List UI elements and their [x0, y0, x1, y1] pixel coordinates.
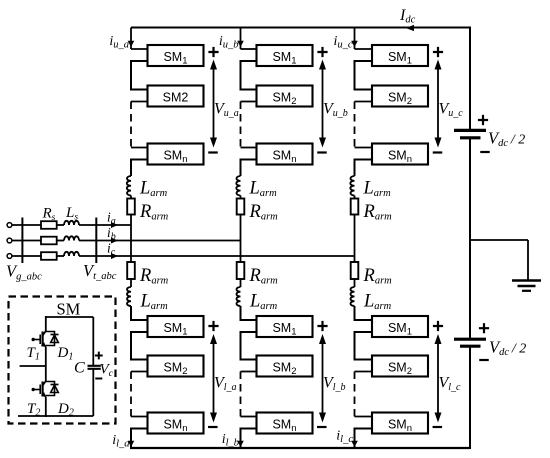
- submodule SM2 lower c: [372, 356, 428, 377]
- wire phase c line to leg: [79, 255, 355, 257]
- plus sign V_l_a: [208, 321, 218, 331]
- voltage arrow V_l_c: [437, 338, 439, 418]
- wire Rs to Ls phase c: [57, 255, 64, 257]
- node grid terminal phase c: [7, 254, 12, 259]
- wire SM2 exit lower c: [355, 371, 373, 373]
- current arrow i_l_b: [237, 441, 244, 447]
- inductor L_arm lower b: [236, 287, 240, 306]
- wire top bus drop phase b: [240, 28, 242, 50]
- wire grid line phase a: [12, 224, 41, 226]
- plus sign V_u_c: [433, 47, 443, 57]
- current arrow I_dc (pointing left): [406, 25, 415, 31]
- wire dashed omitted modules lower a: [130, 372, 132, 417]
- submodule SMn upper b: [257, 144, 313, 165]
- wire ground tap vertical: [527, 240, 529, 280]
- wire Rarm-Larm lower b: [240, 279, 242, 287]
- wire SM right upper: [92, 317, 94, 365]
- submodule SM2 lower a: [148, 356, 204, 377]
- submodule SM1 lower b: [257, 316, 313, 337]
- resistor R_arm upper b: [237, 199, 245, 215]
- wire Larm-Rarm upper b: [240, 196, 242, 199]
- wire SMn to Larm upper c: [355, 160, 373, 177]
- inductor L_arm upper c: [350, 176, 354, 196]
- wire into SM1 upper c: [355, 48, 373, 50]
- wire Rs to Ls phase a: [57, 224, 64, 226]
- wire Larm to SM1 lower b: [241, 306, 257, 320]
- wire into SM1 upper a: [131, 48, 148, 50]
- wire SMn to bottom bus b: [241, 429, 257, 449]
- wire into SMn upper b: [241, 147, 257, 149]
- voltage arrow V_l_b: [322, 338, 324, 418]
- node bus V_g vertical bar: [21, 218, 23, 264]
- wire SM left upper: [45, 316, 47, 331]
- plus sign V_l_c: [433, 321, 443, 331]
- inductor Ls phase a: [64, 221, 79, 225]
- minus sign V_l_b: [317, 426, 327, 428]
- wire SMn to bottom bus c: [355, 429, 373, 449]
- minus sign of lower Vdc/2: [479, 359, 489, 361]
- wire SM bottom: [18, 415, 93, 417]
- wire right DC bus upper segment: [469, 27, 471, 131]
- wire dashed omitted modules lower c: [354, 372, 356, 417]
- wire Rs to Ls phase b: [57, 240, 64, 242]
- submodule SM1 upper c: [372, 45, 428, 66]
- submodule SMn upper a: [148, 144, 204, 165]
- resistor Rs phase c: [41, 252, 57, 260]
- wire SM mid: [45, 347, 47, 381]
- submodule SM1 upper b: [257, 45, 313, 66]
- wire SM output stub: [20, 365, 46, 367]
- wire dashed omitted modules upper c: [354, 102, 356, 148]
- voltage arrow V_l_a: [213, 338, 215, 418]
- wire Larm-Rarm upper c: [354, 196, 356, 199]
- wire into SMn lower a: [131, 416, 148, 418]
- wire into SMn lower c: [355, 416, 373, 418]
- node grid terminal phase a: [7, 223, 12, 228]
- current arrow i_u_a: [128, 41, 135, 47]
- current arrow i_u_b: [237, 41, 244, 47]
- minus sign V_u_a: [208, 151, 218, 153]
- submodule SM2 upper a: [148, 86, 204, 107]
- wire grid line phase b: [12, 240, 41, 242]
- wire leg middle phase b: [240, 215, 242, 263]
- inductor L_arm lower a: [127, 287, 131, 306]
- resistor Rs phase a: [41, 221, 57, 229]
- wire top DC bus: [131, 27, 470, 29]
- minus sign V_l_a: [208, 426, 218, 428]
- inductor Ls phase b: [64, 236, 79, 240]
- diode D1: [46, 332, 55, 346]
- wire phase a line to leg: [79, 224, 131, 226]
- capacitor C: [88, 365, 101, 367]
- inductor L_arm upper a: [127, 176, 131, 196]
- capacitor Vdc/2 lower: [454, 338, 486, 341]
- voltage arrow V_u_c: [437, 64, 439, 143]
- resistor R_arm lower c: [351, 262, 359, 279]
- submodule SM2 lower b: [257, 356, 313, 377]
- wire into SMn upper c: [355, 147, 373, 149]
- wire SMn to Larm upper b: [241, 160, 257, 177]
- plus sign of lower Vdc/2: [479, 323, 489, 333]
- ground symbol: [512, 279, 541, 282]
- wire bottom DC bus: [130, 447, 470, 449]
- node grid terminal phase b: [7, 238, 12, 243]
- plus sign V_u_b: [317, 47, 327, 57]
- plus sign of upper Vdc/2: [478, 115, 488, 125]
- resistor R_arm upper a: [127, 199, 135, 215]
- resistor R_arm upper c: [351, 199, 359, 215]
- minus sign of C: [95, 378, 102, 380]
- current arrow i_a: [111, 222, 118, 228]
- inductor L_arm lower c: [350, 287, 354, 306]
- current arrow i_u_c: [351, 41, 358, 47]
- wire right DC bus middle segment: [469, 138, 471, 339]
- submodule SM1 upper a: [148, 45, 204, 66]
- submodule SM1 lower c: [372, 316, 428, 337]
- plus sign of C: [95, 352, 103, 360]
- transistor T1: [43, 331, 46, 336]
- wire SMn to bottom bus a: [131, 429, 148, 449]
- svg-text:SM: SM: [57, 300, 81, 319]
- wire SM1-SM2 upper b: [241, 61, 257, 90]
- wire SM1-SM2 lower a: [131, 332, 148, 360]
- wire SMn to Larm upper a: [131, 160, 148, 177]
- capacitor Vdc/2 upper: [454, 129, 486, 132]
- voltage arrow V_u_a: [213, 64, 215, 143]
- wire SM1-SM2 upper a: [131, 61, 148, 90]
- current arrow i_l_c: [351, 441, 358, 447]
- wire leg middle phase c: [354, 215, 356, 263]
- minus sign V_u_b: [317, 151, 327, 153]
- minus sign V_l_c: [433, 426, 443, 428]
- wire top bus drop phase c: [354, 28, 356, 50]
- resistor R_arm lower b: [237, 262, 245, 279]
- submodule SMn lower a: [148, 413, 204, 434]
- SM detail dashed box: [9, 297, 116, 424]
- wire dashed omitted modules upper a: [130, 102, 132, 148]
- wire SM1-SM2 upper c: [355, 61, 373, 90]
- resistor R_arm lower a: [127, 262, 135, 279]
- diode D2: [46, 382, 55, 396]
- wire Rarm-Larm lower c: [354, 279, 356, 287]
- minus sign V_u_c: [433, 151, 443, 153]
- resistor Rs phase b: [41, 237, 57, 245]
- current arrow i_c: [111, 253, 118, 259]
- wire SM2 exit upper b: [241, 101, 257, 103]
- wire Larm-Rarm upper a: [130, 196, 132, 199]
- submodule SM1 lower a: [148, 316, 204, 337]
- minus sign of upper Vdc/2: [480, 151, 490, 153]
- wire right DC bus lower segment: [469, 346, 471, 449]
- current arrow i_b: [111, 238, 118, 244]
- inductor L_arm upper b: [236, 176, 240, 196]
- wire SM2 exit lower b: [241, 371, 257, 373]
- wire into SMn upper a: [131, 147, 148, 149]
- wire grid line phase c: [12, 255, 41, 257]
- wire SM left lower: [45, 397, 47, 417]
- wire SM2 exit upper c: [355, 101, 373, 103]
- svg-text:C: C: [74, 360, 85, 377]
- wire into SM1 upper b: [241, 48, 257, 50]
- wire SM1-SM2 lower b: [241, 332, 257, 360]
- transistor T2: [43, 381, 46, 386]
- current arrow i_l_a: [128, 441, 135, 447]
- wire dashed omitted modules lower b: [240, 372, 242, 417]
- wire top bus drop phase a: [130, 28, 132, 50]
- wire SM2 exit upper a: [131, 101, 148, 103]
- wire ground tap horizontal: [470, 239, 528, 241]
- node bus V_t vertical bar: [95, 218, 97, 264]
- wire SM right lower: [92, 369, 94, 416]
- submodule SMn lower b: [257, 413, 313, 434]
- submodule SM2 upper c: [372, 86, 428, 107]
- inductor Ls phase c: [64, 252, 79, 256]
- wire SM top: [46, 316, 94, 318]
- plus sign V_u_a: [208, 47, 218, 57]
- submodule SMn upper c: [372, 144, 428, 165]
- wire dashed omitted modules upper b: [240, 102, 242, 148]
- wire phase b line to leg: [79, 240, 241, 242]
- wire Larm to SM1 lower a: [131, 306, 148, 320]
- wire SM2 exit lower a: [131, 371, 148, 373]
- wire Larm to SM1 lower c: [355, 306, 373, 320]
- submodule SM2 upper b: [257, 86, 313, 107]
- submodule SMn lower c: [372, 413, 428, 434]
- wire leg middle phase a: [130, 215, 132, 263]
- wire into SMn lower b: [241, 416, 257, 418]
- wire Rarm-Larm lower a: [130, 279, 132, 287]
- svg-text:SM2: SM2: [163, 91, 189, 105]
- plus sign V_l_b: [317, 321, 327, 331]
- wire SM1-SM2 lower c: [355, 332, 373, 360]
- voltage arrow V_u_b: [322, 64, 324, 143]
